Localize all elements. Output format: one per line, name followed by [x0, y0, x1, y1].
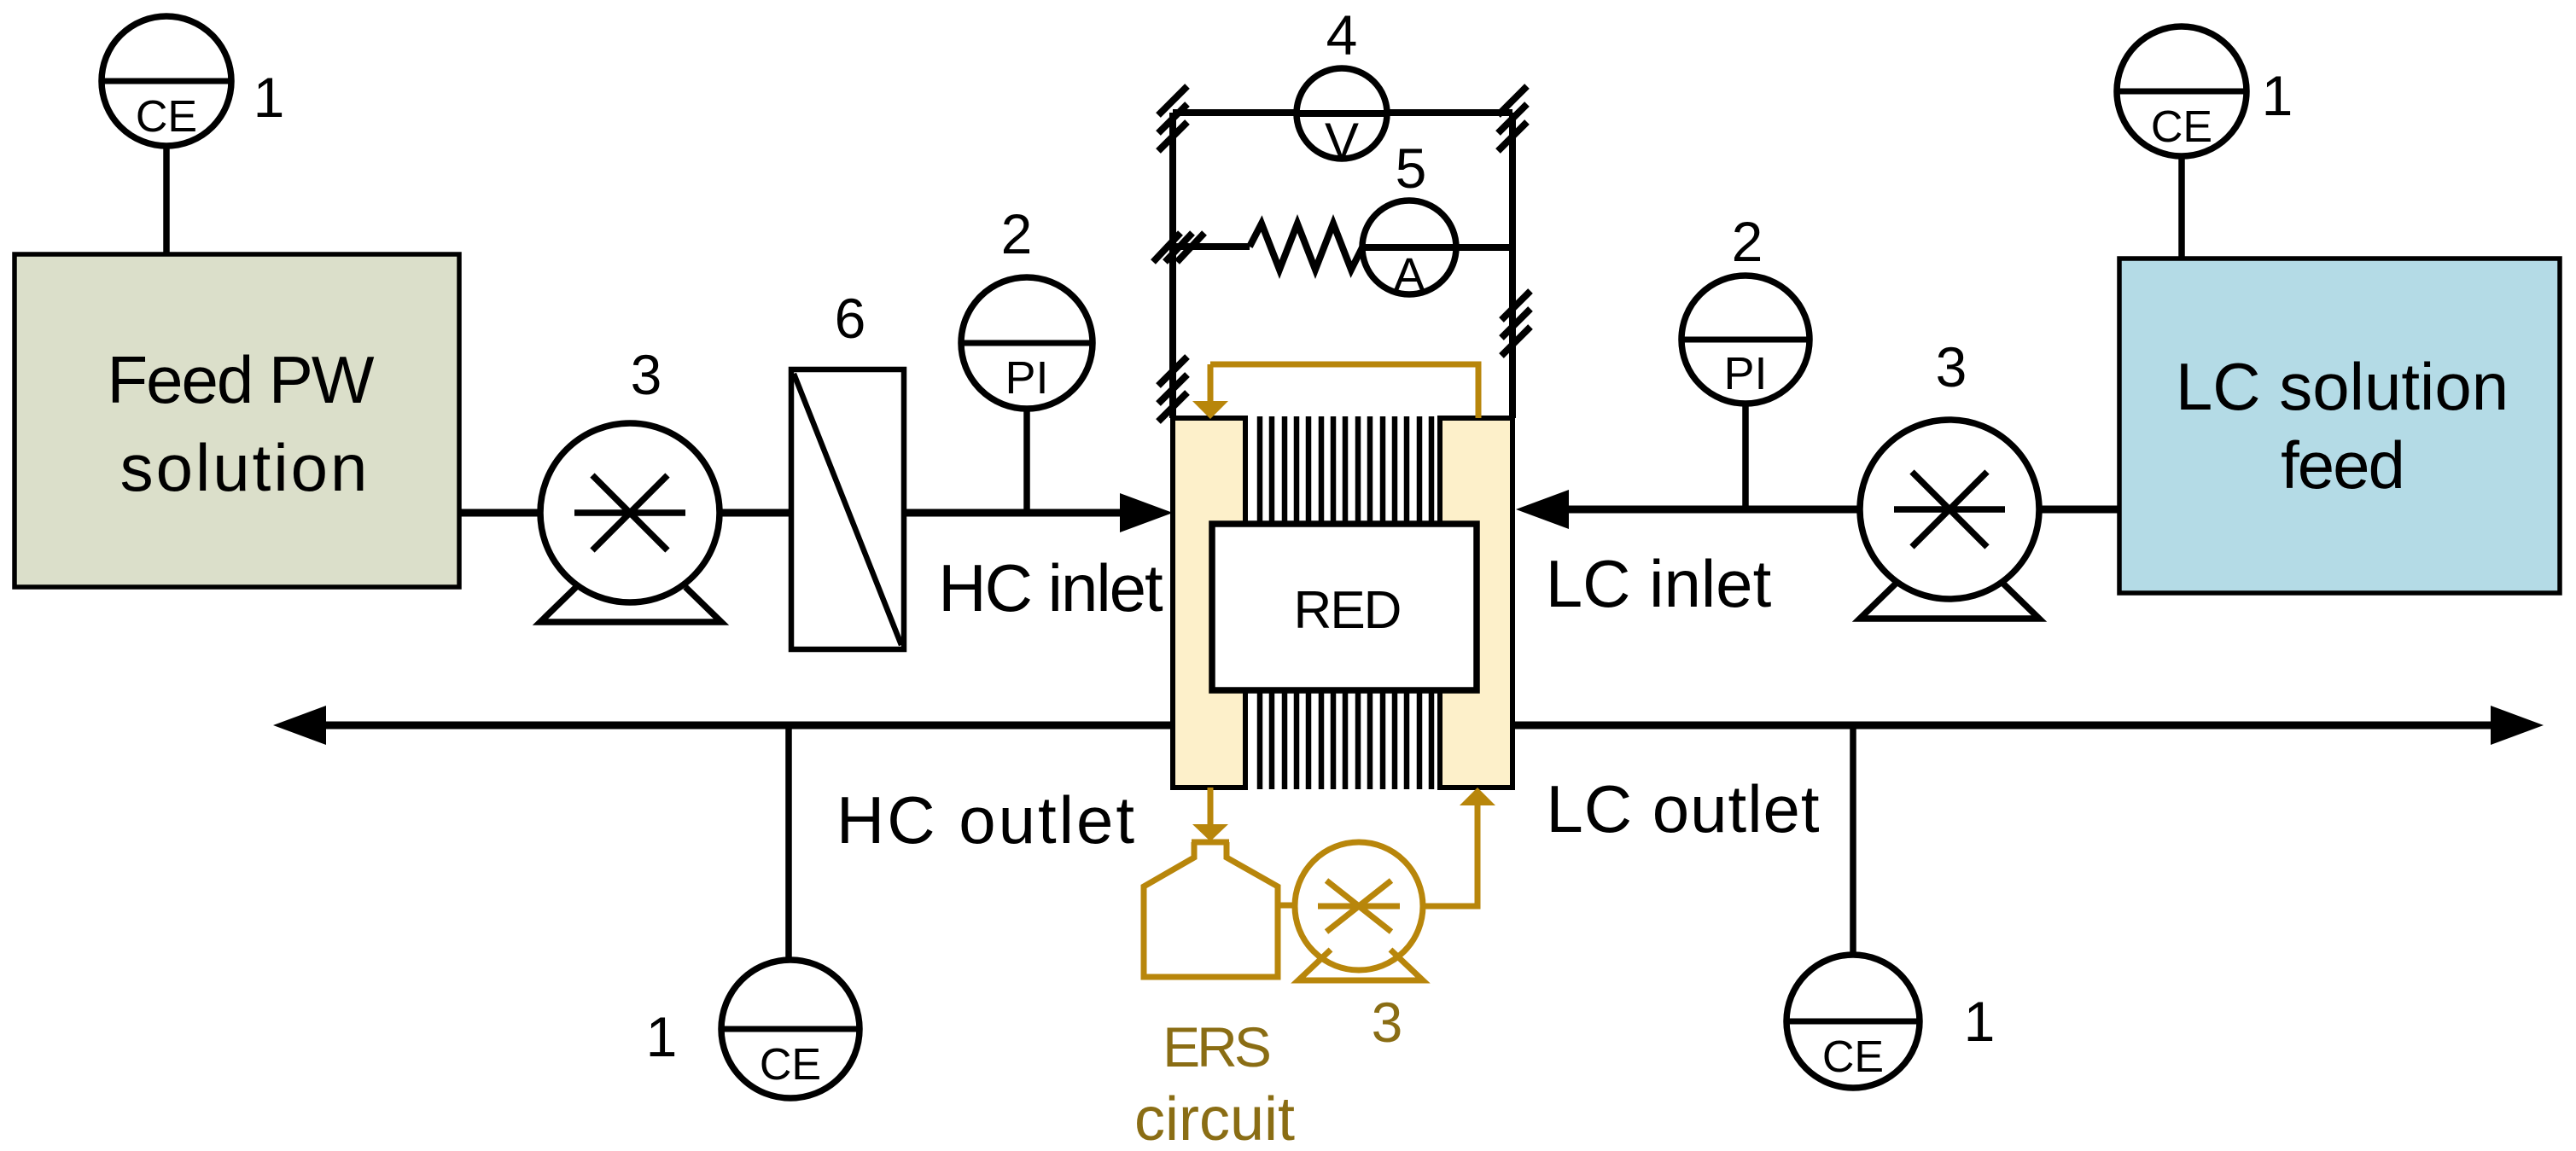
- svg-text:Feed PW: Feed PW: [107, 342, 374, 417]
- svg-text:LC solution: LC solution: [2176, 349, 2509, 424]
- svg-text:solution: solution: [120, 430, 370, 505]
- svg-text:ERS: ERS: [1163, 1015, 1269, 1078]
- svg-text:3: 3: [631, 343, 662, 406]
- svg-text:feed: feed: [2281, 427, 2404, 503]
- svg-text:1: 1: [254, 66, 285, 129]
- svg-text:1: 1: [1964, 990, 1996, 1053]
- svg-text:HC inlet: HC inlet: [938, 550, 1163, 625]
- svg-text:PI: PI: [1723, 348, 1767, 399]
- svg-text:3: 3: [1936, 335, 1967, 398]
- svg-text:V: V: [1325, 113, 1359, 170]
- svg-text:CE: CE: [1822, 1032, 1884, 1082]
- svg-text:LC outlet: LC outlet: [1546, 771, 1820, 846]
- svg-text:3: 3: [1372, 991, 1403, 1054]
- svg-text:2: 2: [1732, 210, 1763, 273]
- svg-text:circuit: circuit: [1134, 1085, 1295, 1151]
- svg-text:1: 1: [2262, 64, 2293, 127]
- svg-text:A: A: [1393, 247, 1425, 301]
- svg-text:RED: RED: [1294, 581, 1401, 640]
- svg-text:5: 5: [1396, 137, 1427, 200]
- svg-text:1: 1: [646, 1005, 678, 1068]
- svg-text:HC outlet: HC outlet: [836, 782, 1137, 857]
- svg-text:LC inlet: LC inlet: [1546, 546, 1772, 621]
- svg-text:6: 6: [835, 287, 866, 350]
- svg-text:4: 4: [1326, 3, 1358, 67]
- svg-text:2: 2: [1001, 202, 1033, 265]
- svg-text:CE: CE: [136, 92, 197, 142]
- svg-text:CE: CE: [2151, 102, 2212, 152]
- svg-text:PI: PI: [1005, 352, 1048, 404]
- svg-text:CE: CE: [760, 1040, 821, 1090]
